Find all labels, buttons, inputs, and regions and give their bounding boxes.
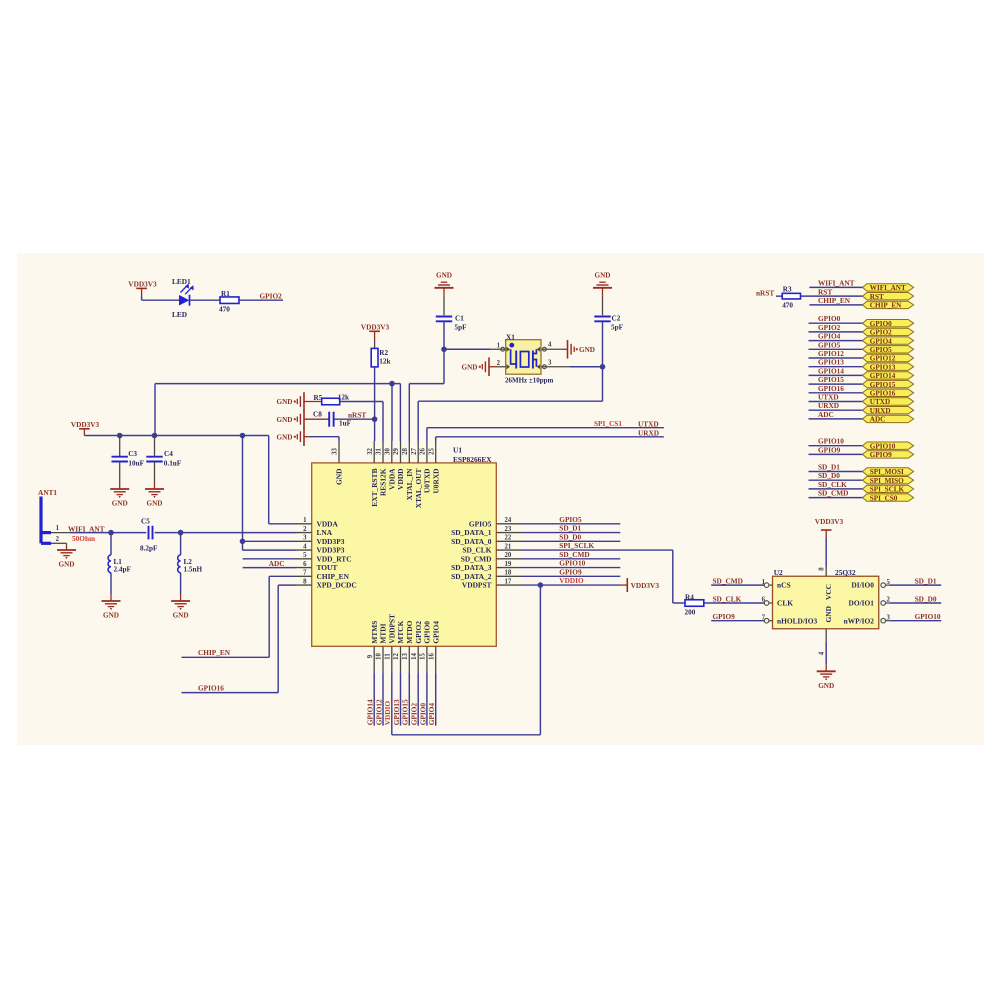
port flag RST xyxy=(863,292,914,299)
junction C1/XTAL1 xyxy=(441,346,447,352)
svg-text:SD_CMD: SD_CMD xyxy=(818,489,848,498)
U2 pin 1 nCS xyxy=(764,583,769,588)
svg-text:5: 5 xyxy=(887,579,891,586)
capacitor C1 5pF xyxy=(436,316,452,318)
ground at ANT1 pin2 xyxy=(57,549,76,551)
svg-text:WIFI_ANT: WIFI_ANT xyxy=(870,284,906,292)
svg-text:R3: R3 xyxy=(783,285,792,293)
wire GPIO4 flag row xyxy=(809,340,863,342)
svg-text:XTAL_OUT: XTAL_OUT xyxy=(414,468,423,508)
svg-text:GPIO13: GPIO13 xyxy=(870,363,896,371)
port flag GPIO4 xyxy=(863,337,914,344)
svg-text:2: 2 xyxy=(497,360,501,367)
svg-text:5pF: 5pF xyxy=(455,324,468,332)
svg-text:GND: GND xyxy=(173,612,189,620)
svg-text:GPIO15: GPIO15 xyxy=(401,699,410,725)
svg-text:U0RXD: U0RXD xyxy=(431,469,440,494)
svg-text:8.2pF: 8.2pF xyxy=(140,544,158,552)
wire SD_D1 from U2 pin5 xyxy=(890,584,941,586)
svg-text:GPIO10: GPIO10 xyxy=(818,437,844,446)
svg-text:31: 31 xyxy=(376,448,383,455)
wire ADC flag row xyxy=(809,418,863,420)
svg-text:5pF: 5pF xyxy=(611,324,624,332)
svg-text:CHIP_EN: CHIP_EN xyxy=(818,296,851,305)
wire gnd to C2 xyxy=(602,288,604,296)
svg-text:19: 19 xyxy=(505,561,512,568)
wire SPI_SCLK from U1 pin21 xyxy=(522,549,673,551)
ground above C1 xyxy=(435,287,454,289)
wire SD_CMD to U2 pin1 xyxy=(711,584,764,586)
svg-text:6: 6 xyxy=(762,597,766,604)
svg-text:VDDIO: VDDIO xyxy=(559,576,584,585)
wire nRST to R3 xyxy=(776,295,782,297)
svg-text:nCS: nCS xyxy=(777,581,791,590)
U2 pin 6 CLK xyxy=(764,601,769,606)
resistor R1 470 xyxy=(220,297,239,304)
svg-text:VCC: VCC xyxy=(824,584,833,600)
svg-text:GPIO5: GPIO5 xyxy=(469,519,492,528)
port flag GPIO0 xyxy=(863,320,914,327)
wire GPIO10 flag row xyxy=(809,445,863,447)
wire U2 pin4 to gnd xyxy=(825,643,827,665)
svg-text:VDD3V3: VDD3V3 xyxy=(815,517,844,526)
svg-text:32: 32 xyxy=(367,448,374,455)
wire GPIO0 flag row xyxy=(809,322,863,324)
svg-text:SPI_MOSI: SPI_MOSI xyxy=(870,468,904,476)
svg-text:ANT1: ANT1 xyxy=(38,488,57,497)
svg-text:1: 1 xyxy=(497,342,501,349)
svg-text:GPIO13: GPIO13 xyxy=(818,358,844,367)
svg-text:UTXD: UTXD xyxy=(818,393,839,402)
svg-text:SD_CLK: SD_CLK xyxy=(818,480,847,489)
svg-text:SD_D1: SD_D1 xyxy=(818,463,840,472)
svg-text:15: 15 xyxy=(420,653,427,660)
port flag GPIO5 xyxy=(863,346,914,353)
power flag VDD3V3 (VDDIO sideways) xyxy=(620,584,627,586)
svg-text:GPIO9: GPIO9 xyxy=(818,445,841,454)
svg-text:R1: R1 xyxy=(221,290,230,298)
ground (sideways, C8 row) xyxy=(303,410,305,429)
resistor R3 470 xyxy=(782,293,800,299)
wire GPIO16 flag row xyxy=(809,392,863,394)
wire R4 to U2 pin6 CLK xyxy=(704,602,765,604)
wire gnd to C1 xyxy=(443,288,445,296)
svg-text:1uF: 1uF xyxy=(339,420,352,428)
svg-text:C3: C3 xyxy=(128,450,137,458)
svg-text:CLK: CLK xyxy=(777,599,793,608)
svg-text:GND: GND xyxy=(335,469,344,485)
port flag ADC xyxy=(863,415,914,422)
svg-text:23: 23 xyxy=(505,526,512,533)
wire R1 to GPIO2 xyxy=(239,299,283,301)
port flag GPIO2 xyxy=(863,328,914,335)
capacitor C3 10uF xyxy=(119,436,121,457)
svg-text:4: 4 xyxy=(548,342,552,349)
svg-text:GPIO9: GPIO9 xyxy=(870,451,892,459)
IC U1 ESP8266EX xyxy=(312,463,497,646)
svg-text:SD_CLK: SD_CLK xyxy=(462,546,491,555)
resistor R4 200 xyxy=(685,600,704,607)
svg-text:nHOLD/IO3: nHOLD/IO3 xyxy=(777,616,818,625)
svg-text:MTCK: MTCK xyxy=(396,620,405,643)
junction VDDIO xyxy=(538,582,544,588)
svg-text:SD_D0: SD_D0 xyxy=(559,532,581,541)
wire WIFI_ANT antenna line xyxy=(51,532,70,534)
port flag SPI_MOSI xyxy=(863,468,914,475)
wire GPIO12 flag row xyxy=(809,357,863,359)
ground below C4 xyxy=(145,488,164,490)
wire R3 to RST flag xyxy=(801,295,863,297)
svg-text:RES12K: RES12K xyxy=(379,468,388,496)
svg-text:nWP/IO2: nWP/IO2 xyxy=(844,616,875,625)
wire VDDIO from U1 pin 17 xyxy=(522,584,621,586)
svg-text:GPIO16: GPIO16 xyxy=(818,384,844,393)
wire C2 to crystal pin3 / XTAL_OUT xyxy=(602,321,604,401)
svg-text:UTXD: UTXD xyxy=(638,419,659,428)
svg-text:SD_CMD: SD_CMD xyxy=(461,554,492,563)
svg-text:URXD: URXD xyxy=(818,401,839,410)
svg-text:DI/IO0: DI/IO0 xyxy=(851,581,874,590)
svg-text:SD_CMD: SD_CMD xyxy=(713,576,743,585)
wire GPIO5 flag row xyxy=(809,348,863,350)
svg-text:VDD3V3: VDD3V3 xyxy=(361,323,390,332)
junction rail/C4 xyxy=(152,433,158,439)
svg-text:6: 6 xyxy=(303,561,307,568)
svg-text:GND: GND xyxy=(818,682,834,690)
svg-text:SPI_SCLK: SPI_SCLK xyxy=(870,486,905,494)
svg-text:GPIO16: GPIO16 xyxy=(870,390,896,398)
wire CHIP_EN to U1 pin7 xyxy=(269,575,295,577)
wire SD_CMD from U1 pin 20 xyxy=(522,558,621,560)
ground (sideways, U1 pin33 row) xyxy=(303,427,305,446)
port flag GPIO16 xyxy=(863,389,914,396)
wire C1 to crystal pin1 / XTAL_IN xyxy=(443,321,445,383)
port flag UTXD xyxy=(863,398,914,405)
svg-text:ADC: ADC xyxy=(870,416,886,424)
wire SD_D1 from U1 pin 23 xyxy=(522,532,621,534)
port flag GPIO14 xyxy=(863,372,914,379)
port flag SPI_MISO xyxy=(863,477,914,484)
junction C2/XTAL3 xyxy=(600,364,606,370)
svg-text:SD_D1: SD_D1 xyxy=(915,576,937,585)
svg-text:GPIO5: GPIO5 xyxy=(870,346,892,354)
port flag CHIP_EN xyxy=(863,301,914,308)
wire GPIO15 from U1 pin 13 xyxy=(408,672,410,725)
svg-text:SD_CMD: SD_CMD xyxy=(559,550,589,559)
wire gnd to C8 xyxy=(304,418,329,420)
svg-text:GND: GND xyxy=(147,500,163,508)
svg-text:GPIO0: GPIO0 xyxy=(418,703,427,726)
svg-text:C2: C2 xyxy=(612,315,621,323)
svg-text:C4: C4 xyxy=(164,450,173,458)
svg-text:LED: LED xyxy=(172,310,187,319)
svg-text:GPIO12: GPIO12 xyxy=(870,355,896,363)
svg-text:12k: 12k xyxy=(338,393,349,401)
svg-text:11: 11 xyxy=(384,653,391,660)
svg-text:GND: GND xyxy=(595,271,611,279)
svg-text:URXD: URXD xyxy=(638,429,659,438)
svg-text:4: 4 xyxy=(818,651,825,655)
svg-text:17: 17 xyxy=(505,578,512,585)
wire URXD from U1 pin25 xyxy=(435,437,437,441)
wire CHIP_EN flag xyxy=(809,304,862,306)
svg-text:VDDA: VDDA xyxy=(387,468,396,490)
wire GPIO0 from U1 pin 15 xyxy=(426,672,428,725)
junction VDDA wire xyxy=(389,381,395,387)
svg-text:470: 470 xyxy=(782,301,793,309)
svg-text:28: 28 xyxy=(402,448,409,455)
svg-text:GPIO4: GPIO4 xyxy=(818,332,841,341)
wire nRST C8 to U1 pin32 EXT_RSTB xyxy=(334,418,374,420)
svg-text:3: 3 xyxy=(303,535,307,542)
wire WIFI_ANT flag xyxy=(809,286,862,288)
port flag SPI_SCLK xyxy=(863,485,914,492)
resistor R5 12k xyxy=(322,398,340,405)
svg-text:R5: R5 xyxy=(314,394,323,402)
wire GPIO16 to U1 pin8 xyxy=(278,584,295,586)
svg-text:R2: R2 xyxy=(379,349,388,357)
svg-text:16: 16 xyxy=(428,653,435,660)
wire URXD flag row xyxy=(809,409,863,411)
capacitor C2 5pF xyxy=(594,316,610,318)
U1 right pin stubs 24-17 xyxy=(496,523,521,525)
svg-text:C5: C5 xyxy=(141,518,150,526)
svg-text:18: 18 xyxy=(505,570,512,577)
svg-text:9: 9 xyxy=(367,654,374,658)
svg-text:VDDPST: VDDPST xyxy=(462,581,492,590)
svg-text:25Q32: 25Q32 xyxy=(835,568,856,577)
svg-text:GND: GND xyxy=(824,606,833,622)
wire gnd to crystal pin2 xyxy=(489,366,497,368)
svg-text:GND: GND xyxy=(462,363,478,371)
svg-text:EXT_RSTB: EXT_RSTB xyxy=(370,468,379,506)
svg-text:200: 200 xyxy=(685,609,696,617)
wire GPIO14 flag row xyxy=(809,374,863,376)
svg-text:LNA: LNA xyxy=(317,528,333,537)
svg-text:CHIP_EN: CHIP_EN xyxy=(198,648,231,657)
svg-text:30: 30 xyxy=(384,448,391,455)
junction rail/VDD3P3 branch xyxy=(240,433,246,439)
svg-text:VDD3V3: VDD3V3 xyxy=(631,581,660,590)
svg-text:21: 21 xyxy=(505,543,512,550)
ground (sideways) at crystal pin4 xyxy=(567,340,569,359)
wire GPIO13 flag row xyxy=(809,366,863,368)
port flag GPIO15 xyxy=(863,380,914,387)
wire GPIO9 flag row xyxy=(809,453,863,455)
junction rail/C3 xyxy=(117,433,123,439)
wire GPIO13 from U1 pin 12 xyxy=(400,672,402,725)
svg-text:20: 20 xyxy=(505,552,512,559)
wire GPIO10 from U1 pin 19 xyxy=(522,567,621,569)
ground (sideways) at crystal pin2 xyxy=(488,357,490,376)
U2 pin 2 DO/IO1 xyxy=(881,601,886,606)
svg-text:VDD3V3: VDD3V3 xyxy=(71,420,100,429)
U1 top pin stubs 33,32-25 xyxy=(338,441,340,463)
svg-text:SD_DATA_1: SD_DATA_1 xyxy=(451,528,492,537)
wire SD_D0 from U1 pin 22 xyxy=(522,540,621,542)
svg-text:50Ohm: 50Ohm xyxy=(72,534,95,543)
svg-text:GPIO12: GPIO12 xyxy=(374,699,383,725)
wire SPI_SCLK down to R4 xyxy=(672,550,674,603)
wire R2 to nRST node xyxy=(374,367,376,419)
svg-text:VDD3P3: VDD3P3 xyxy=(317,537,345,546)
svg-text:33: 33 xyxy=(332,448,339,455)
svg-text:GPIO2: GPIO2 xyxy=(410,703,419,726)
svg-text:U2: U2 xyxy=(774,568,783,577)
svg-text:GPIO0: GPIO0 xyxy=(423,621,432,644)
wire VDDIO bottom loop xyxy=(392,734,541,736)
U2 pin 3 nWP/IO2 xyxy=(881,618,886,623)
svg-text:25: 25 xyxy=(428,448,435,455)
svg-text:1: 1 xyxy=(56,525,60,532)
svg-text:MTDO: MTDO xyxy=(405,620,414,643)
wire SD_CMD flag row xyxy=(809,497,863,499)
wire LED to R1 xyxy=(190,299,221,301)
inductor L2 1.5nH xyxy=(180,533,182,555)
svg-text:29: 29 xyxy=(393,448,400,455)
junction VDD3P3 pin3 xyxy=(240,539,246,545)
svg-text:GPIO10: GPIO10 xyxy=(915,612,941,621)
svg-text:URXD: URXD xyxy=(870,407,891,415)
wire GPIO2 flag row xyxy=(809,331,863,333)
wire GPIO5 from U1 pin 24 xyxy=(522,523,621,525)
wire GPIO14 from U1 pin 9 xyxy=(373,672,375,725)
svg-text:C8: C8 xyxy=(313,410,322,418)
wire VDD3V3 to LED xyxy=(141,296,143,300)
svg-text:SD_D0: SD_D0 xyxy=(915,594,937,603)
svg-text:ADC: ADC xyxy=(269,559,285,568)
svg-text:U0TXD: U0TXD xyxy=(423,469,432,494)
wire U1 pin5 stub xyxy=(243,558,296,560)
wire UTXD flag row xyxy=(809,401,863,403)
wire GPIO9 from U1 pin 18 xyxy=(522,575,621,577)
svg-text:10: 10 xyxy=(376,653,383,660)
svg-text:2: 2 xyxy=(56,536,60,543)
svg-text:12k: 12k xyxy=(379,357,390,365)
svg-text:GPIO15: GPIO15 xyxy=(870,381,896,389)
svg-text:MTDI: MTDI xyxy=(379,623,388,643)
svg-text:27: 27 xyxy=(411,448,418,455)
svg-text:1: 1 xyxy=(303,517,307,524)
svg-text:GND: GND xyxy=(112,500,128,508)
svg-text:10uF: 10uF xyxy=(128,459,144,467)
svg-text:SD_CLK: SD_CLK xyxy=(713,594,742,603)
U2 pin 8 stub xyxy=(825,568,827,576)
junction nRST xyxy=(372,416,378,422)
svg-text:WIFI_ANT: WIFI_ANT xyxy=(818,278,855,287)
svg-text:TOUT: TOUT xyxy=(317,563,338,572)
wire GPIO2 from U1 pin 14 xyxy=(417,672,419,725)
svg-text:GPIO15: GPIO15 xyxy=(818,375,844,384)
wire GPIO15 flag row xyxy=(809,383,863,385)
U2 pin 5 DI/IO0 xyxy=(881,583,886,588)
port flag GPIO13 xyxy=(863,363,914,370)
wire VDDIO loop from U1 pin11 xyxy=(391,672,393,735)
svg-text:GPIO12: GPIO12 xyxy=(818,349,844,358)
svg-text:GND: GND xyxy=(277,433,293,441)
svg-text:GND: GND xyxy=(436,271,452,279)
svg-text:GPIO14: GPIO14 xyxy=(818,366,844,375)
svg-text:GPIO2: GPIO2 xyxy=(870,329,892,337)
wire gnd to R5 xyxy=(304,401,322,403)
svg-text:7: 7 xyxy=(303,570,307,577)
svg-text:VDDIO: VDDIO xyxy=(383,701,392,726)
svg-text:SD_DATA_2: SD_DATA_2 xyxy=(451,572,492,581)
svg-text:GPIO5: GPIO5 xyxy=(818,340,841,349)
wire SD_CLK flag row xyxy=(809,488,863,490)
wire SD_D1 flag row xyxy=(809,471,863,473)
capacitor C4 0.1uF xyxy=(154,436,156,457)
svg-text:U1: U1 xyxy=(453,446,462,455)
svg-text:5: 5 xyxy=(303,552,307,559)
svg-text:SPI_CS0: SPI_CS0 xyxy=(870,494,898,502)
wire ADC to U1 pin6 xyxy=(243,567,296,569)
svg-text:UTXD: UTXD xyxy=(870,398,890,406)
svg-text:26MHz ±10ppm: 26MHz ±10ppm xyxy=(505,376,554,384)
svg-text:4: 4 xyxy=(303,543,307,550)
svg-text:CHIP_EN: CHIP_EN xyxy=(317,572,350,581)
svg-text:SPI_SCLK: SPI_SCLK xyxy=(559,541,594,550)
svg-text:RST: RST xyxy=(870,293,884,301)
ground below L1 xyxy=(102,600,121,602)
svg-text:XPD_DCDC: XPD_DCDC xyxy=(317,581,357,590)
wire GPIO10 from U2 pin3 xyxy=(890,620,941,622)
svg-text:DO/IO1: DO/IO1 xyxy=(849,599,875,608)
inductor L1 2.4pF xyxy=(110,533,112,555)
svg-text:GPIO4: GPIO4 xyxy=(431,621,440,644)
svg-text:22: 22 xyxy=(505,535,512,542)
port flag SPI_CS0 xyxy=(863,494,914,501)
svg-text:C1: C1 xyxy=(455,315,464,323)
svg-text:GPIO9: GPIO9 xyxy=(559,567,582,576)
port flag GPIO12 xyxy=(863,354,914,361)
wire GPIO9 to U2 pin7 xyxy=(711,620,764,622)
svg-text:GND: GND xyxy=(59,561,75,569)
svg-text:GPIO4: GPIO4 xyxy=(870,337,892,345)
wire rail to U1 pin1 VDDA xyxy=(268,436,270,524)
wire SD_D0 from U2 pin2 xyxy=(890,602,941,604)
svg-text:2.4pF: 2.4pF xyxy=(114,565,132,573)
svg-text:VDDD: VDDD xyxy=(396,469,405,490)
wire R5 to U1 pin31 RES12K xyxy=(340,401,383,403)
wire VDD3P3 to U1 pins 3/4 xyxy=(242,436,244,551)
capacitor C8 1uF xyxy=(328,412,330,427)
svg-text:24: 24 xyxy=(505,517,512,524)
svg-text:nRST: nRST xyxy=(756,289,774,298)
svg-text:GPIO14: GPIO14 xyxy=(366,699,375,725)
svg-text:LED1: LED1 xyxy=(172,277,191,286)
svg-text:12: 12 xyxy=(393,653,400,660)
svg-text:GND: GND xyxy=(277,416,293,424)
svg-text:SD_D1: SD_D1 xyxy=(559,524,581,533)
svg-text:CHIP_EN: CHIP_EN xyxy=(870,302,902,310)
svg-text:SD_D0: SD_D0 xyxy=(818,471,840,480)
crystal X1 26MHz xyxy=(506,340,541,375)
svg-text:MTMS: MTMS xyxy=(370,621,379,644)
svg-text:0.1uF: 0.1uF xyxy=(164,459,182,467)
svg-text:VDD3V3: VDD3V3 xyxy=(128,280,157,289)
svg-text:GPIO14: GPIO14 xyxy=(870,372,896,380)
svg-text:GND: GND xyxy=(103,612,119,620)
svg-text:SPI_MISO: SPI_MISO xyxy=(870,477,904,485)
svg-text:GPIO16: GPIO16 xyxy=(198,683,224,692)
svg-text:GPIO2: GPIO2 xyxy=(260,291,283,300)
svg-text:GPIO5: GPIO5 xyxy=(559,515,582,524)
svg-text:GPIO0: GPIO0 xyxy=(818,314,841,323)
svg-text:26: 26 xyxy=(420,448,427,455)
ground below C3 xyxy=(110,488,129,490)
resistor R2 12k xyxy=(374,340,376,348)
